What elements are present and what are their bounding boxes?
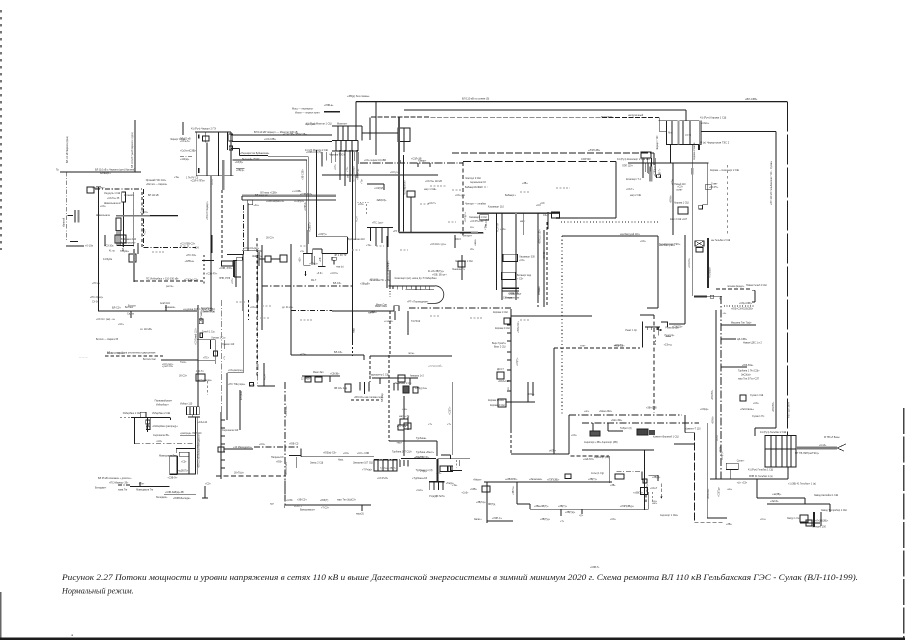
wire dash-dot vertical x721 [720, 296, 722, 479]
wire tick [221, 459, 225, 461]
wire [403, 396, 405, 419]
gray overlay on x692 [691, 168, 693, 175]
box [222, 261, 234, 266]
wire [646, 327, 648, 330]
svg-text:+СЗ+: +СЗ+ [500, 229, 506, 231]
svg-text:+Т+: +Т+ [224, 355, 226, 360]
svg-text:+Та+: +Та+ [452, 485, 458, 487]
wire dash-dot y459 [374, 458, 401, 460]
svg-text:отпайка: отпайка [538, 286, 541, 295]
gray overlay x257.6 [257, 364, 259, 370]
wire tick [407, 311, 409, 335]
svg-text:Тибрит (З): Тибрит (З) [620, 427, 632, 430]
box [237, 257, 243, 260]
bus dark y199.9 [242, 199, 336, 201]
noise mark [448, 221, 456, 223]
svg-text:+СЗ(п)+: +СЗ(п)+ [309, 264, 318, 266]
svg-text:Хунзах 110: Хунзах 110 [222, 343, 235, 346]
svg-text:Сергокала 110: Сергокала 110 [222, 429, 239, 432]
wire dash-dot y308 to Kirova [409, 307, 511, 309]
wire [306, 230, 308, 253]
svg-text:Гельбахская ГЭС+: Гельбахская ГЭС+ [659, 243, 681, 246]
wire dash-dot left [118, 484, 130, 486]
transformer box [116, 218, 121, 231]
svg-text:нова Тяг: нова Тяг [118, 489, 128, 492]
bus thick gray to gas TES [796, 447, 837, 450]
svg-text:ВЛ-СЗ+: ВЛ-СЗ+ [112, 307, 121, 310]
substation Буйнакская [303, 230, 348, 276]
box [374, 460, 397, 471]
svg-text:+ВЛ-СЗ+ нов тяговая под+: +ВЛ-СЗ+ нов тяговая под+ [354, 396, 384, 399]
svg-text:+СЗ-Та+ 110 кВ: +СЗ-Та+ 110 кВ [425, 181, 442, 183]
svg-text:+ЗВздВ+: +ЗВздВ+ [360, 283, 370, 286]
svg-text:+ЮЗВ-Белидж+: +ЮЗВ-Белидж+ [173, 497, 191, 500]
svg-text:нагр Тип 5 Па +СЗТ: нагр Тип 5 Па +СЗТ [738, 379, 760, 381]
substation Чонтаул [455, 162, 465, 280]
wire [645, 326, 660, 328]
wire dashed vertical x142 [141, 192, 143, 247]
svg-text:+СлЗ+: +СлЗ+ [461, 493, 469, 495]
wire drop Chir to bus 311 [210, 176, 212, 311]
wire [370, 227, 372, 241]
svg-text:+СОС-СЗ+: +СОС-СЗ+ [508, 293, 520, 295]
svg-text:+ЮЗ(а)-СЗ+: +ЮЗ(а)-СЗ+ [323, 452, 337, 455]
wire [462, 162, 464, 235]
svg-text:+ЮВ-СЗ: +ЮВ-СЗ [289, 443, 299, 446]
substation Мкал Западная [302, 376, 340, 382]
svg-text:+ЗВ(д) 1а+: +ЗВ(д) 1а+ [415, 387, 428, 390]
svg-text:дл. 41 км+: дл. 41 км+ [282, 307, 294, 309]
wire bus A to D [231, 134, 332, 136]
wire [231, 147, 240, 149]
bus bar [682, 121, 684, 145]
svg-text:+ВЛ-199+: +ВЛ-199+ [708, 488, 710, 499]
wire vertical x264 [263, 363, 265, 386]
wire dotted vertical x562 [561, 236, 563, 415]
svg-text:+СЗ+: +СЗ+ [519, 260, 525, 262]
wire y386 [257, 385, 275, 387]
svg-text:+СЗ+: +СЗ+ [358, 204, 364, 206]
box small ps Gergebil [87, 187, 94, 193]
box [214, 351, 218, 356]
wire [515, 252, 517, 300]
svg-text:+СЗ-СЗ+: +СЗ-СЗ+ [688, 258, 691, 268]
wire dash-dot [262, 285, 352, 287]
box Sulak [740, 395, 746, 401]
svg-text:Шамилькала оп: Шамилькала оп [104, 203, 122, 205]
wire [403, 128, 405, 142]
wire y163 [628, 162, 709, 164]
svg-text:Сергокала 35+: Сергокала 35+ [153, 434, 170, 437]
svg-text:ВЛ 110 кВ по схеме (5): ВЛ 110 кВ по схеме (5) [462, 97, 489, 101]
wire tick [560, 509, 562, 516]
svg-text:Новая ЦЭС 1 и 2: Новая ЦЭС 1 и 2 [743, 342, 762, 345]
svg-text:Бабаюрт 1 СШ: Бабаюрт 1 СШ [465, 186, 481, 189]
wire dashed Izberbash link [134, 280, 203, 282]
svg-text:СУ-5+: СУ-5+ [92, 301, 99, 304]
svg-text:ВЛ-СЗ+: ВЛ-СЗ+ [333, 282, 342, 285]
svg-text:нагрузочный: нагрузочный [628, 113, 644, 117]
wire tick [394, 311, 396, 320]
wire [188, 456, 190, 474]
wire dash-dot vertical x221.7 [221, 300, 223, 412]
box [146, 426, 150, 430]
wire vertical x673 [672, 163, 674, 235]
wire dashes [352, 343, 354, 356]
wire [236, 168, 245, 170]
svg-text:+СЗ: +СЗ [540, 203, 545, 205]
wire y435.4 [180, 434, 196, 436]
wire dashes [366, 204, 368, 215]
box [699, 205, 703, 209]
svg-text:+ЧзС+: +ЧзС+ [416, 490, 424, 492]
substation Буйнакск [115, 235, 138, 282]
wire [233, 261, 235, 277]
wire [379, 378, 381, 384]
wire bus A to D second [232, 141, 332, 143]
svg-text:ВЛ-СЗ+: ВЛ-СЗ+ [334, 351, 343, 354]
svg-text:Рч(а)ДВ-Та/Та: Рч(а)ДВ-Та/Та [429, 496, 445, 498]
wire dashed bus y161 [463, 161, 616, 163]
wire vertical x243 lower [242, 311, 244, 373]
svg-text:ВЛ 110 кВ: ВЛ 110 кВ [148, 195, 159, 197]
svg-text:+СЗ б+: +СЗ б+ [330, 273, 338, 275]
wire [442, 482, 444, 490]
svg-text:Мкал Сев: Мкал Сев [376, 304, 388, 307]
svg-text:+Та+: +Та+ [174, 177, 180, 179]
svg-text:+СЗ%: +СЗ% [286, 499, 294, 502]
svg-text:+СЗ(Т)+: +СЗ(Т)+ [722, 451, 724, 460]
page scan left edge lower [0, 592, 2, 640]
wire [210, 340, 212, 349]
bus Избербаш y417 [131, 416, 170, 418]
box [196, 374, 205, 381]
svg-text:Хасавюрт 330: Хасавюрт 330 [519, 256, 535, 259]
svg-text:Избербаш 2 СШ: Избербаш 2 СШ [152, 412, 170, 415]
svg-text:Кирова 1 СШ: Кирова 1 СШ [493, 311, 508, 314]
svg-text:+124,: +124, [194, 248, 200, 250]
bus long y509 [530, 508, 648, 510]
wire left long vertical [98, 187, 100, 311]
wire [333, 260, 335, 264]
svg-text:+СЗ(Т)д+: +СЗ(Т)д+ [719, 486, 721, 497]
noise mark [470, 317, 482, 319]
svg-text:Чирюрт ГЭС: Чирюрт ГЭС [656, 135, 659, 150]
svg-text:+СЗ + СЗВ: +СЗ + СЗВ [357, 452, 369, 455]
wire x670 upper [670, 144, 672, 163]
svg-text:Избербаш 1 СШ: Избербаш 1 СШ [123, 412, 141, 415]
wire y372.8 [228, 372, 244, 374]
svg-text:ЗВ СЗ+ 4(а): ЗВ СЗ+ 4(а) [334, 387, 347, 390]
substation Миатли (top-center) [332, 102, 410, 155]
wire [403, 430, 405, 456]
wire [242, 255, 244, 311]
svg-text:+СЗ а-б+: +СЗ а-б+ [180, 141, 190, 143]
wire corner x685 [684, 415, 686, 433]
wire tick [182, 122, 184, 135]
svg-text:+Перекрёсток Буйнакская+: +Перекрёсток Буйнакская+ [240, 152, 270, 155]
wire dash-dot y189 [95, 188, 144, 190]
wire vertical x355.8 [355, 175, 357, 240]
wire [189, 407, 191, 415]
wire [367, 226, 393, 228]
svg-text:+СЗ+распред+: +СЗ+распред+ [228, 370, 244, 372]
wire tick [221, 451, 225, 453]
wire [441, 454, 451, 456]
svg-text:+СЗ(Т)+: +СЗ(Т)+ [450, 406, 452, 415]
wire vertical x644.5 [644, 450, 646, 510]
svg-text:Степная: Степная [503, 298, 513, 300]
svg-text:+СЗ-СЗВ+: +СЗ-СЗВ+ [264, 138, 277, 141]
svg-text:41 (Руч) Чирюрт 2 ГЭ: 41 (Руч) Чирюрт 2 ГЭ [191, 128, 216, 131]
svg-text:+Т+: +Т+ [560, 521, 565, 523]
svg-text:+СЗ/а+: +СЗ/а+ [527, 394, 535, 396]
wire dashed [105, 355, 163, 357]
svg-text:41 (Руч) Кирова 1 СШ: 41 (Руч) Кирова 1 СШ [700, 116, 727, 120]
wire y458.5 [401, 458, 436, 460]
svg-text:+Мкал-ЗЫ+: +Мкал-ЗЫ+ [599, 410, 613, 413]
svg-text:+ма (п): +ма (п) [336, 266, 344, 268]
wire [349, 150, 351, 182]
wire tick [429, 163, 431, 167]
box [403, 386, 409, 393]
svg-text:Салта: Салта [127, 313, 135, 316]
wire [205, 132, 207, 142]
wire vertical [204, 486, 206, 498]
bus gray vertical x399 [398, 118, 400, 233]
svg-text:личная фидер+: личная фидер+ [727, 285, 745, 288]
svg-text:+СЗ-Т+: +СЗ-Т+ [358, 171, 360, 180]
svg-text:Завод Каспийск 1 СШ: Завод Каспийск 1 СШ [814, 494, 838, 497]
svg-text:+СЗ+: +СЗ+ [571, 435, 577, 437]
svg-text:+ЗВ+СЗВ: +ЗВ+СЗВ [646, 407, 657, 410]
gray overlay x285 [284, 480, 286, 493]
svg-text:Т2-ПСЖ: Т2-ПСЖ [411, 320, 421, 323]
svg-text:знч+: знч+ [652, 501, 658, 503]
wire dashed y400 [351, 399, 380, 401]
wire corner [755, 427, 776, 429]
wire [800, 522, 820, 524]
svg-text:Тлох+: Тлох+ [180, 362, 187, 364]
wire [230, 132, 232, 176]
wire [451, 470, 462, 472]
wire [284, 505, 286, 508]
svg-text:+ВЛ-СЗ Чирюрт+: +ВЛ-СЗ Чирюрт+ [206, 200, 209, 220]
svg-text:Нормальный режим.: Нормальный режим. [61, 587, 134, 596]
wire [175, 449, 177, 453]
wire [454, 235, 456, 248]
box [129, 254, 136, 262]
wire [403, 142, 405, 153]
wire [406, 288, 434, 290]
wire [786, 436, 788, 468]
wire tick [399, 160, 401, 163]
svg-text:Турбина+: Турбина+ [416, 437, 427, 440]
svg-text:+Та+: +Та+ [485, 224, 487, 230]
wire small vertical [296, 457, 298, 468]
box [480, 215, 489, 220]
wire [170, 417, 172, 420]
box [332, 257, 336, 260]
wire corner vertical x616 [615, 162, 617, 219]
wire [389, 288, 391, 297]
wire dash-dot vertical x143.5 [143, 189, 145, 248]
svg-text:ДСЗ-Т: ДСЗ-Т [497, 369, 504, 371]
svg-text:Верх 2 СШ: Верх 2 СШ [494, 347, 506, 349]
wire [665, 336, 671, 338]
svg-text:ВЛ 35 кВ описание + дополн.+: ВЛ 35 кВ описание + дополн.+ [98, 477, 132, 480]
svg-text:об(Т)+: об(Т)+ [549, 450, 557, 453]
svg-text:+Ял+: +Ял+ [139, 483, 145, 485]
svg-text:+ВЛ-б+: +ВЛ-б+ [713, 416, 715, 424]
svg-text:+СЗ РУ+: +СЗ РУ+ [709, 187, 719, 189]
wire tick [139, 482, 141, 486]
bus y456 [301, 456, 374, 458]
svg-text:+Гельбах+: +Гельбах+ [710, 266, 712, 278]
svg-text:Ленинкент+: Ленинкент+ [452, 268, 466, 271]
bus section bars [359, 382, 361, 391]
svg-text:Машина Тип 7(ю)+: Машина Тип 7(ю)+ [731, 322, 752, 325]
svg-text:ЛНВ, РУФ: ЛНВ, РУФ [219, 277, 230, 280]
svg-text:+ПС 1сш+: +ПС 1сш+ [372, 221, 384, 224]
noise mark [300, 319, 312, 321]
svg-text:+СЗ+тд: +СЗ+тд [664, 345, 673, 347]
svg-text:Реакт 1 Ср: Реакт 1 Ср [625, 330, 637, 332]
svg-text:Турбина ЗВ Пч: Турбина ЗВ Пч [380, 468, 397, 470]
svg-text:+ПС+: +ПС+ [203, 358, 210, 360]
wire [176, 448, 196, 450]
substation Гуниб [196, 333, 218, 364]
svg-text:Чонтаул — отпайка: Чонтаул — отпайка [465, 203, 487, 206]
wire [147, 418, 149, 432]
svg-text:Турбина 1 Пч (СЗ)+: Турбина 1 Пч (СЗ)+ [738, 370, 760, 373]
substation Мамедкала [170, 449, 196, 475]
wire step [804, 498, 806, 504]
svg-text:+мкБ+: +мкБ+ [370, 312, 377, 314]
wire junction y454 [511, 453, 569, 455]
wire dotted [357, 201, 369, 203]
wire dashes x248.5 [248, 300, 250, 320]
box [806, 520, 812, 526]
wire [233, 260, 237, 262]
svg-text:+1 (ЗВ) 41 Гельбах+ 1 (а): +1 (ЗВ) 41 Гельбах+ 1 (а) [788, 483, 816, 486]
svg-text:+РУ: +РУ [393, 231, 398, 233]
wire [389, 270, 391, 288]
wire vertical x694.5 [694, 433, 696, 523]
svg-text:+вл+: +вл+ [652, 503, 658, 505]
wire [429, 482, 431, 490]
wire [658, 327, 660, 336]
wire arrow tip2 [837, 448, 844, 451]
svg-text:+СЗ 41 т (вж) - а+: +СЗ 41 т (вж) - а+ [96, 319, 116, 321]
wire [496, 213, 498, 290]
wire [607, 423, 609, 431]
wire [193, 407, 195, 415]
svg-text:оп+: оп+ [348, 173, 350, 178]
wire corner down x659 [658, 118, 660, 132]
wire dashed drop [221, 190, 223, 260]
svg-text:Буйнакская 110: Буйнакская 110 [348, 238, 365, 241]
wire into box top [659, 120, 667, 122]
svg-text:+СЗ завода+: +СЗ завода+ [198, 380, 212, 382]
empty [510, 318, 512, 321]
svg-text:+Т+: +Т+ [447, 424, 452, 426]
wire [477, 212, 560, 214]
wire tick [417, 163, 419, 167]
wire [351, 141, 353, 152]
wire [227, 132, 229, 150]
svg-text:+ВЛ-СЗВ+: +ВЛ-СЗВ+ [745, 97, 758, 101]
wire tick [507, 351, 511, 353]
wire [188, 416, 200, 418]
wire vertical x452.6 [452, 382, 454, 455]
wire dashes [652, 492, 654, 502]
svg-text:+ЗВ+: +ЗВ+ [522, 183, 528, 185]
wire [501, 213, 503, 300]
svg-text:+ЛВ(п)+: +ЛВ(п)+ [236, 170, 245, 172]
bus y311 dash-dot middle [291, 310, 332, 312]
speck [72, 635, 74, 636]
wire [321, 249, 323, 253]
svg-text:+лЗВ(Т)+: +лЗВ(Т)+ [633, 493, 644, 495]
box [440, 466, 453, 472]
wire arrow tip [837, 444, 846, 448]
substation Изберг [187, 407, 201, 417]
svg-text:+Т1+: +Т1+ [347, 166, 349, 172]
svg-text:+СЗ-Гуниб 110+: +СЗ-Гуниб 110+ [196, 327, 198, 345]
svg-text:+ли+: +ли+ [580, 345, 586, 348]
wire [195, 131, 231, 133]
svg-text:+Ап+: +Ап+ [253, 204, 259, 207]
wire [305, 271, 307, 276]
wire tick [581, 509, 583, 514]
svg-text:+СЗ+ перем СЗ,АБВ: +СЗ+ перем СЗ,АБВ [364, 159, 386, 162]
box on bus [504, 318, 510, 324]
wire dashed vertical x370 [369, 356, 371, 382]
svg-text:+ЗВ(Т)д+: +ЗВ(Т)д+ [540, 519, 551, 521]
svg-text:+)(+ +СЗ+: +)(+ +СЗ+ [737, 483, 748, 485]
wire corner down [653, 153, 655, 165]
svg-text:нагр: нагр [353, 327, 356, 333]
arrowhead [660, 497, 662, 499]
wire [527, 382, 529, 402]
wire [375, 102, 377, 155]
svg-text:+СЗ+: +СЗ+ [232, 278, 234, 284]
box Сулак tie [726, 463, 738, 469]
svg-text:Точприб 100: Точприб 100 [812, 526, 826, 529]
substation Реактор [643, 322, 672, 348]
wire [104, 235, 106, 246]
box [187, 407, 200, 415]
wire short [70, 241, 78, 243]
svg-text:+СЗ+ руч: +СЗ+ руч [455, 195, 466, 197]
wire [313, 248, 322, 250]
wire drop to substation D [355, 102, 357, 126]
wire short [224, 340, 226, 349]
wire dash-dot y471.6 [617, 471, 642, 473]
svg-text:+ли+: +ли+ [402, 409, 408, 411]
svg-text:Завод Точприбор 1 СШ: Завод Точприбор 1 СШ [821, 509, 847, 512]
wire [650, 327, 652, 330]
svg-text:С3+2: С3+2 [543, 214, 549, 217]
wire vertical x517 [516, 482, 518, 504]
box small [250, 383, 254, 387]
wire dashed vertical [537, 230, 539, 307]
ground end bar [202, 497, 208, 499]
svg-text:+СхЗ-а+(СЗВ)+: +СхЗ-а+(СЗВ)+ [180, 150, 197, 152]
narrow box [122, 192, 126, 202]
wire dotted y222 [561, 221, 658, 223]
